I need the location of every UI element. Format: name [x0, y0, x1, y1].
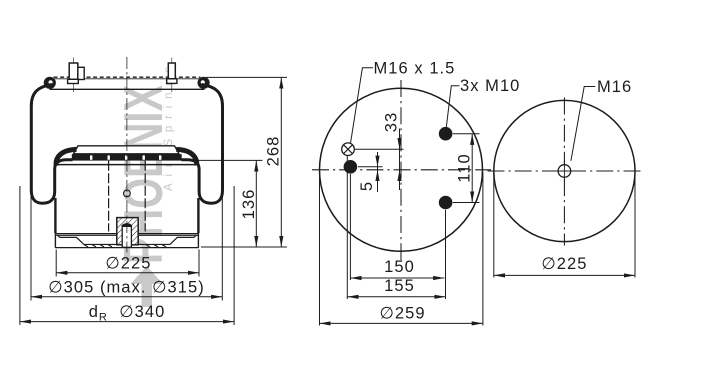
ext 225r left	[493, 173, 495, 278]
svg-text:3x M10: 3x M10	[460, 77, 520, 95]
ext line strip to 136	[186, 159, 263, 161]
dim 305 line	[31, 296, 222, 298]
ext 305 left	[30, 196, 32, 301]
piston wall left below roll	[54, 198, 56, 233]
piston inner bore line left	[108, 161, 110, 232]
watermark PHOENIX	[112, 85, 174, 264]
piston wall right below roll	[197, 198, 199, 233]
dim 5 arrow up	[375, 170, 379, 181]
watermark Air Springs	[163, 60, 175, 191]
flange crimp band	[84, 244, 170, 247]
bellows corner roll right	[176, 149, 197, 165]
svg-text:5: 5	[358, 181, 376, 191]
dim 136 text	[240, 189, 258, 220]
center thread M16	[554, 161, 575, 182]
piston top strip	[74, 146, 180, 154]
bolt M10 right top	[439, 127, 453, 141]
svg-text:M16: M16	[597, 78, 632, 96]
bead right	[198, 77, 210, 89]
dim 225r line	[494, 274, 635, 276]
svg-text:33: 33	[383, 112, 401, 132]
leader M16x1.5	[350, 68, 373, 144]
ext 340 left	[19, 186, 21, 325]
stud 2 foot	[167, 79, 177, 84]
flange right edge	[197, 233, 199, 248]
bolt hatch block	[117, 218, 138, 245]
svg-text:136: 136	[240, 189, 258, 220]
bead seat band	[72, 154, 182, 160]
bead left	[44, 77, 56, 89]
svg-text:110: 110	[456, 153, 474, 182]
bellows outline left	[31, 85, 72, 204]
dim 33 line	[399, 129, 401, 191]
dim 5 text	[358, 181, 376, 191]
ext 150 left	[349, 174, 351, 280]
piston center hole	[124, 190, 131, 197]
ext 340 right	[233, 186, 235, 325]
bolt head cap	[122, 224, 131, 227]
centerline left view	[126, 57, 128, 253]
stud 2 body	[168, 63, 175, 79]
stud 1 side piece	[78, 67, 84, 79]
dim 33 arrow up	[397, 170, 401, 181]
bellows outline right	[181, 85, 222, 204]
ext fitting to dim33	[355, 148, 404, 150]
ext line flange bottom to 268	[201, 246, 287, 248]
dim 155 line	[347, 296, 445, 298]
plate circle	[320, 88, 483, 251]
svg-text:∅225: ∅225	[541, 255, 587, 273]
flange left edge	[54, 233, 56, 248]
centerline horizontal	[488, 170, 642, 172]
dim 110 line	[471, 134, 473, 203]
leader M16	[571, 87, 595, 161]
air fitting M16x1.5	[342, 143, 355, 156]
svg-text:268: 268	[265, 136, 283, 167]
dim 136 line	[255, 160, 257, 247]
stud 1 foot	[68, 79, 79, 83]
svg-text:∅305 (max. ∅315): ∅305 (max. ∅315)	[48, 279, 205, 297]
stud 2 centerline	[171, 58, 173, 93]
dim 150 line	[350, 277, 444, 279]
flange bottom line	[55, 247, 198, 249]
stud 1 centerline	[73, 58, 75, 93]
ext 259 right	[482, 172, 484, 326]
piston top surface	[55, 164, 199, 166]
ext 225 left	[55, 250, 57, 277]
ext bolts right top	[453, 133, 480, 135]
ext 225r right	[634, 173, 636, 278]
dim 5 arrow down	[375, 156, 379, 167]
dim 268 text	[265, 136, 283, 167]
ext 305 right	[221, 196, 223, 301]
bolt body	[122, 226, 131, 248]
dim 110 text	[456, 153, 474, 182]
ext line top plate to 268	[206, 76, 287, 78]
dim 340 line	[20, 321, 234, 323]
flange step right	[170, 235, 197, 244]
dim 259 line	[320, 322, 483, 324]
svg-text:∅225: ∅225	[105, 255, 151, 273]
bolt M10 left	[344, 160, 358, 174]
svg-text:150: 150	[384, 258, 415, 276]
centerline horizontal	[312, 169, 491, 171]
centerline vertical	[563, 98, 565, 246]
bolt M10 right bottom	[439, 196, 453, 210]
dim 33 text	[383, 112, 401, 132]
svg-text:∅259: ∅259	[379, 304, 425, 322]
flange top line 2	[55, 234, 198, 236]
ext 225 right	[198, 250, 200, 277]
dim 5 line	[377, 152, 379, 192]
flange top line 1	[55, 233, 198, 235]
dim 225 line	[56, 272, 199, 274]
piston circle	[494, 100, 635, 241]
leader 3x M10	[446, 86, 459, 129]
ext 150/155 right	[445, 210, 447, 299]
dim 33 arrow down	[397, 138, 401, 149]
svg-text:155: 155	[384, 277, 415, 295]
watermark logo arrow	[131, 266, 164, 307]
bead plate top dashed line	[54, 76, 201, 78]
ext 259 left	[319, 172, 321, 326]
ext 155 left	[346, 156, 348, 299]
stud 1 body	[69, 63, 78, 79]
piston inner bore line right	[144, 161, 146, 232]
bead plate bottom line	[50, 88, 205, 90]
svg-text:M16 x 1.5: M16 x 1.5	[374, 60, 456, 78]
centerline vertical	[400, 80, 402, 261]
ext bolts right bottom	[453, 202, 480, 204]
dim 268 line	[280, 77, 282, 247]
bead plate top edge	[54, 78, 201, 80]
bellows corner roll left	[56, 149, 77, 165]
flange step left	[58, 235, 85, 244]
ext bolt to dim5	[358, 166, 383, 168]
